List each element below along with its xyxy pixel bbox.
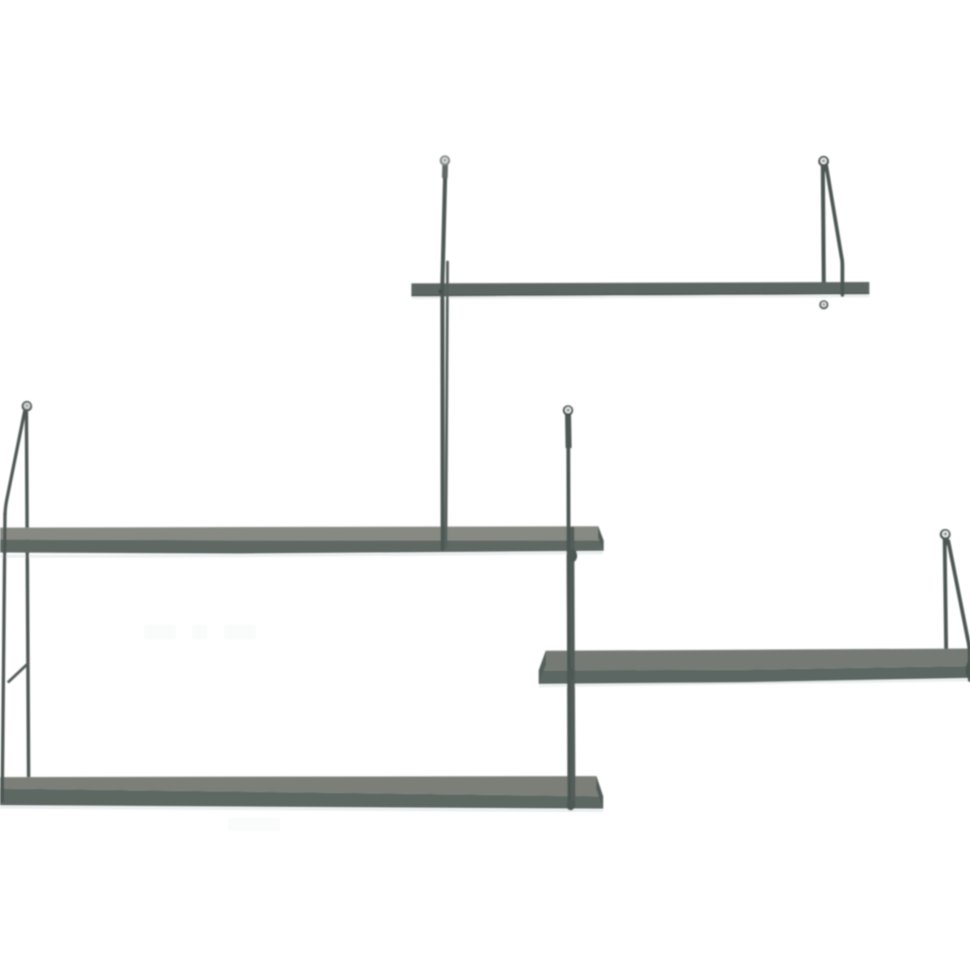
wall screw knob top-left rod	[440, 155, 450, 178]
faint smudge under bottom shelf	[228, 818, 280, 831]
top shelf bar	[411, 282, 869, 297]
soft shadow under lower-right shelf	[539, 680, 970, 686]
top shelf right diagonal brace	[826, 166, 842, 296]
wire hook notch under top shelf	[439, 289, 442, 294]
screw under top shelf right	[819, 300, 828, 309]
top shelf left rod companion wire	[446, 262, 448, 548]
lower-right shelf vertical rod	[945, 537, 947, 653]
wall screw knob top-right	[818, 156, 829, 174]
soft shadow under bottom shelf	[0, 807, 603, 811]
wire wrap below lower-right shelf edge	[966, 662, 970, 678]
middle-left shelf right end cap	[598, 526, 603, 551]
faint watermark smudge row left	[144, 625, 256, 640]
top shelf bar bottom lip	[411, 293, 869, 297]
top shelf right vertical rod	[823, 164, 824, 287]
lower-right shelf top surface	[539, 649, 970, 671]
wall screw knob left ladder	[22, 401, 33, 412]
wall screw knob lower-right shelf	[940, 529, 951, 547]
ladder front rail (crosses both left shelves)	[2, 513, 5, 801]
middle shelf right rod (double wire to bottom shelf)	[567, 413, 578, 811]
lower-right shelf diagonal brace	[948, 541, 969, 680]
ladder back rail (left bracket rear upright)	[26, 409, 28, 777]
middle-left shelf front face	[0, 540, 604, 554]
bottom shelf right end cap	[596, 776, 603, 809]
ladder cross strut	[8, 664, 28, 683]
soft shadow under middle-left shelf	[0, 553, 603, 557]
middle-left shelf top surface	[0, 526, 604, 540]
bottom shelf top surface	[0, 776, 603, 796]
wall screw knob middle shelf right	[563, 405, 573, 448]
lower-right shelf left end cap	[539, 651, 546, 684]
lower-right shelf front face	[539, 666, 970, 684]
bottom shelf front face	[0, 789, 603, 809]
top shelf left rod (front, long to middle shelf)	[442, 165, 445, 549]
ladder wall diagonal (left bracket brace)	[5, 410, 25, 516]
soft shadow under top bar	[412, 296, 869, 298]
